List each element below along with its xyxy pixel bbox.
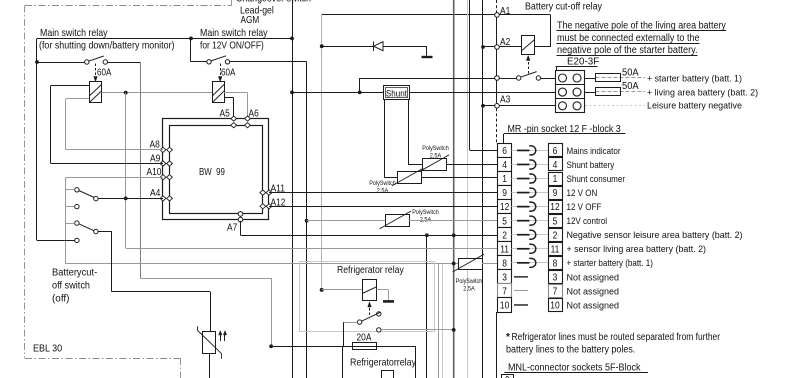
svg-text:5: 5 bbox=[553, 216, 558, 227]
svg-text:3: 3 bbox=[553, 272, 558, 283]
svg-text:Main switch relay: Main switch relay bbox=[40, 27, 108, 39]
svg-text:12 V ON: 12 V ON bbox=[567, 188, 598, 199]
svg-text:12: 12 bbox=[500, 202, 510, 213]
svg-text:9: 9 bbox=[553, 188, 558, 199]
svg-text:11: 11 bbox=[500, 244, 509, 255]
svg-text:+ sensor living area battery (: + sensor living area battery (batt. 2) bbox=[567, 244, 707, 255]
svg-text:The negative pole of the livin: The negative pole of the living area bat… bbox=[557, 21, 726, 32]
svg-text:10: 10 bbox=[550, 301, 560, 312]
svg-text:50A: 50A bbox=[622, 67, 639, 78]
svg-text:2: 2 bbox=[502, 230, 507, 241]
svg-text:A8: A8 bbox=[150, 140, 161, 151]
svg-text:Refrigeratorrelay: Refrigeratorrelay bbox=[350, 356, 417, 368]
svg-text:12V control: 12V control bbox=[567, 216, 608, 227]
svg-text:Shunt consumer: Shunt consumer bbox=[567, 174, 626, 185]
svg-text:Not assigned: Not assigned bbox=[567, 286, 620, 297]
svg-text:PolySwitch: PolySwitch bbox=[369, 180, 396, 187]
svg-text:Negative sensor leisure area b: Negative sensor leisure area battery (ba… bbox=[567, 230, 743, 241]
svg-text:2,5A: 2,5A bbox=[377, 188, 389, 195]
svg-text:2,5A: 2,5A bbox=[430, 153, 442, 160]
svg-text:60A: 60A bbox=[97, 68, 112, 79]
svg-text:6: 6 bbox=[553, 146, 558, 157]
svg-text:A7: A7 bbox=[227, 223, 238, 234]
svg-text:A9: A9 bbox=[150, 153, 161, 164]
svg-text:Leisure battery negative: Leisure battery negative bbox=[647, 101, 742, 112]
svg-text:AGM: AGM bbox=[241, 14, 260, 26]
svg-text:A10: A10 bbox=[147, 167, 162, 178]
svg-text:8: 8 bbox=[502, 258, 507, 269]
svg-text:20A: 20A bbox=[357, 333, 372, 344]
svg-text:(for shutting down/battery mon: (for shutting down/battery monitor) bbox=[39, 40, 175, 52]
svg-text:A6: A6 bbox=[249, 109, 260, 120]
svg-text:1: 1 bbox=[553, 174, 558, 185]
svg-text:3: 3 bbox=[502, 272, 507, 283]
svg-text:7: 7 bbox=[502, 287, 507, 298]
svg-text:50A: 50A bbox=[622, 81, 639, 92]
svg-text:+ living area battery (batt. 2: + living area battery (batt. 2) bbox=[647, 87, 758, 98]
svg-text:Mains indicator: Mains indicator bbox=[567, 146, 621, 157]
svg-text:Battery cut-off relay: Battery cut-off relay bbox=[525, 2, 602, 13]
svg-text:Refrigerator relay: Refrigerator relay bbox=[337, 265, 404, 276]
svg-text:A5: A5 bbox=[220, 109, 231, 120]
svg-text:must be connected externally t: must be connected externally to the bbox=[557, 33, 700, 44]
svg-text:PolySwitch: PolySwitch bbox=[412, 209, 439, 216]
svg-text:(off): (off) bbox=[52, 293, 70, 305]
svg-text:11: 11 bbox=[551, 244, 560, 255]
svg-text:5: 5 bbox=[502, 216, 507, 227]
svg-text:4: 4 bbox=[553, 160, 558, 171]
svg-text:A4: A4 bbox=[150, 188, 161, 199]
svg-text:MNL-connector sockets 5F-Block: MNL-connector sockets 5F-Block bbox=[508, 361, 641, 373]
svg-text:for 12V ON/OFF): for 12V ON/OFF) bbox=[200, 40, 264, 52]
svg-text:A3: A3 bbox=[500, 95, 511, 106]
svg-text:PolySwitch: PolySwitch bbox=[422, 145, 449, 152]
svg-text:12: 12 bbox=[550, 202, 560, 213]
svg-text:Shunt: Shunt bbox=[386, 88, 407, 99]
svg-text:PolySwitch: PolySwitch bbox=[456, 278, 483, 285]
svg-text:8: 8 bbox=[553, 258, 558, 269]
svg-text:Main switch relay: Main switch relay bbox=[200, 27, 268, 39]
svg-text:E20-3F: E20-3F bbox=[567, 55, 599, 67]
svg-text:7: 7 bbox=[553, 287, 558, 298]
svg-text:12 V OFF: 12 V OFF bbox=[567, 202, 602, 213]
svg-text:60A: 60A bbox=[221, 68, 236, 79]
svg-text:4: 4 bbox=[502, 160, 507, 171]
svg-text:Changeover switch: Changeover switch bbox=[236, 0, 311, 5]
svg-text:off switch: off switch bbox=[52, 280, 90, 292]
svg-text:A1: A1 bbox=[500, 6, 511, 17]
svg-text:+ starter battery (batt. 1): + starter battery (batt. 1) bbox=[567, 258, 653, 269]
svg-text:2,5A: 2,5A bbox=[463, 286, 475, 293]
svg-text:Refrigerator lines must be rou: Refrigerator lines must be routed separa… bbox=[512, 332, 721, 343]
svg-text:Batterycut-: Batterycut- bbox=[52, 267, 98, 279]
svg-text:Shunt battery: Shunt battery bbox=[567, 160, 615, 171]
svg-text:BW 99: BW 99 bbox=[199, 167, 225, 178]
svg-text:10: 10 bbox=[500, 301, 510, 312]
svg-text:*: * bbox=[506, 332, 510, 343]
svg-text:+ starter battery (batt. 1): + starter battery (batt. 1) bbox=[647, 73, 742, 84]
svg-text:9: 9 bbox=[502, 188, 507, 199]
svg-text:Not assigned: Not assigned bbox=[567, 272, 620, 283]
svg-text:EBL 30: EBL 30 bbox=[33, 343, 62, 355]
svg-text:6: 6 bbox=[502, 146, 507, 157]
svg-text:2: 2 bbox=[553, 230, 558, 241]
svg-text:1: 1 bbox=[502, 174, 507, 185]
svg-text:battery lines to the battery p: battery lines to the battery poles. bbox=[506, 344, 635, 355]
svg-text:Not assigned: Not assigned bbox=[567, 300, 620, 311]
